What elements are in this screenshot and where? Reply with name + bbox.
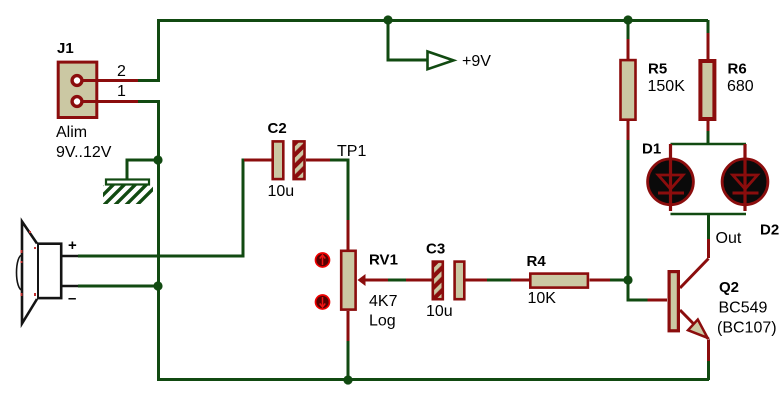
svg-text:1: 1 xyxy=(117,83,126,100)
resistor R5 xyxy=(621,39,686,140)
wire RV1 bottom to rail xyxy=(347,341,350,380)
svg-text:Log: Log xyxy=(369,313,396,330)
wire TP1 down to RV1 (pin stub) xyxy=(347,220,350,250)
svg-text:10u: 10u xyxy=(268,183,295,200)
wire bottom ground rail xyxy=(157,378,709,381)
wire left vertical from rail to J1 pin 2 xyxy=(138,19,159,81)
wire RV1 wiper to C3 xyxy=(388,279,406,282)
svg-text:4K7: 4K7 xyxy=(369,293,398,310)
resistor R4 xyxy=(511,253,610,307)
wire rail corner to R6 xyxy=(707,20,710,33)
capacitor C2 xyxy=(244,120,330,200)
svg-text:D2: D2 xyxy=(760,222,779,239)
svg-text:R4: R4 xyxy=(527,253,547,270)
wire rail to R5 xyxy=(627,20,630,39)
node speaker minus junction xyxy=(153,281,162,290)
svg-text:R5: R5 xyxy=(648,61,667,78)
wire J1 pin1 to left vertical rail down to bottom rail xyxy=(138,102,159,381)
svg-text:680: 680 xyxy=(727,78,754,95)
potentiometer RV1 xyxy=(341,251,398,341)
RV1 down button xyxy=(316,295,330,309)
node rail junction for R5 xyxy=(623,15,632,24)
svg-text:10u: 10u xyxy=(426,303,453,320)
wire to ground xyxy=(127,160,158,181)
speaker LS1 xyxy=(17,222,79,324)
svg-text:Q2: Q2 xyxy=(719,279,739,296)
svg-text:150K: 150K xyxy=(648,78,686,95)
wire R5 to base node xyxy=(627,140,630,280)
wire to +9V symbol xyxy=(388,20,427,60)
wire C2 to TP1 corner xyxy=(330,160,348,220)
connector J1 xyxy=(56,40,138,161)
svg-text:+: + xyxy=(68,237,77,254)
ground xyxy=(75,180,160,213)
node base junction xyxy=(623,275,632,284)
wire R4 to base node xyxy=(610,279,628,282)
wire emitter to bottom rail xyxy=(707,361,710,380)
wire speaker - to left rail xyxy=(78,285,158,288)
svg-text:J1: J1 xyxy=(57,40,74,57)
power +9V xyxy=(428,52,492,71)
wire collector stub xyxy=(707,239,710,258)
svg-text:2: 2 xyxy=(117,63,126,80)
capacitor C3 xyxy=(406,241,487,321)
LED D2 xyxy=(722,144,779,239)
wire LED cathode bar xyxy=(671,213,747,216)
svg-text:(BC107): (BC107) xyxy=(717,320,777,337)
svg-text:D1: D1 xyxy=(642,141,661,158)
svg-text:Out: Out xyxy=(716,230,742,247)
svg-text:TP1: TP1 xyxy=(337,143,366,160)
LED D1 xyxy=(642,141,693,212)
svg-text:R6: R6 xyxy=(728,61,747,78)
node RV1 bottom rail junction xyxy=(343,375,352,384)
wire Out: cathode bar down to collector xyxy=(707,214,710,239)
wire base node to Q2 xyxy=(628,280,648,300)
svg-text:C2: C2 xyxy=(268,120,287,137)
transistor Q2 xyxy=(648,259,777,362)
wire R6 to LED top bar xyxy=(707,131,710,144)
svg-text:Alim: Alim xyxy=(56,124,87,141)
svg-text:10K: 10K xyxy=(528,290,557,307)
svg-text:BC549: BC549 xyxy=(719,300,768,317)
svg-text:+9V: +9V xyxy=(462,53,491,70)
node pin1/ground junction xyxy=(153,155,162,164)
RV1 up button xyxy=(316,253,330,267)
svg-text:RV1: RV1 xyxy=(369,252,398,269)
resistor R6 xyxy=(700,33,753,131)
wire speaker + to C2 branch xyxy=(78,160,245,256)
svg-text:C3: C3 xyxy=(426,241,445,258)
wire C3 to R4 xyxy=(487,279,511,282)
wire LED anode bar xyxy=(671,143,747,146)
svg-text:9V..12V: 9V..12V xyxy=(56,144,112,161)
node rail junction for +9V xyxy=(383,15,392,24)
svg-text:–: – xyxy=(68,290,76,307)
wire top +9V rail xyxy=(158,19,708,22)
